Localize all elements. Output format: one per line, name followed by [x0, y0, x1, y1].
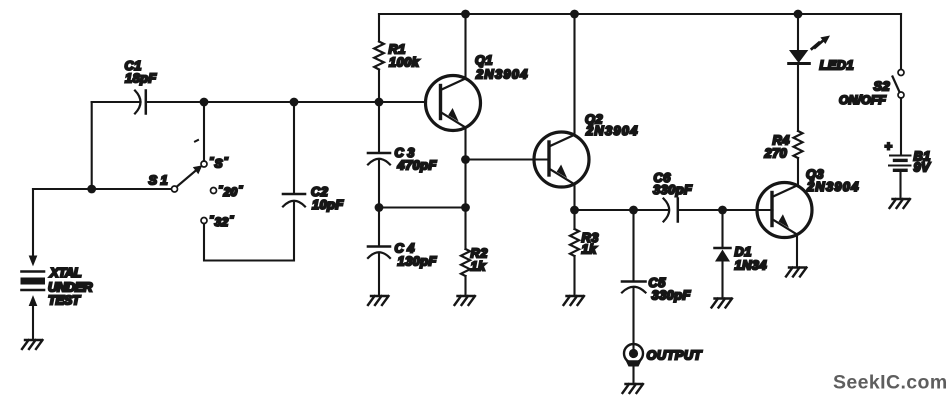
svg-text:ON/OFF: ON/OFF: [839, 93, 886, 107]
node junction R1/C3: [375, 98, 384, 107]
ground (C4): [368, 296, 389, 305]
svg-text:"S": "S": [210, 156, 229, 171]
ground (R3): [564, 296, 585, 305]
arrow up from ground to XTAL: [29, 297, 36, 306]
wire Q1 collector: [464, 14, 466, 79]
capacitor C4: [368, 245, 390, 248]
ground (B1): [890, 199, 911, 208]
node junction R2 top: [461, 203, 470, 212]
wire interstage row y=210: [575, 209, 773, 211]
wire C4 branch: [378, 208, 380, 297]
transistor Q3: [757, 183, 812, 238]
svg-text:SeekIC.com: SeekIC.com: [833, 372, 948, 394]
svg-text:330pF: 330pF: [652, 288, 692, 303]
node junction C1/S: [200, 98, 209, 107]
svg-text:270: 270: [764, 146, 788, 161]
node junction Q2 emitter / output row: [570, 206, 579, 215]
node contact "20": [211, 188, 217, 194]
node junction C5 tap: [629, 206, 638, 215]
wire from S contact up to input line: [203, 102, 205, 161]
ground (Q3): [786, 268, 807, 277]
resistor R3: [570, 229, 579, 256]
capacitor C1: [135, 91, 141, 114]
node junction Q2 collector at rail: [570, 10, 579, 19]
wire S2 branch from rail: [900, 14, 902, 70]
diode D1: [715, 247, 731, 250]
svg-text:"32": "32": [210, 214, 235, 229]
battery B1: [890, 155, 911, 157]
ground (R2): [455, 296, 476, 305]
wire S1 arm: [177, 170, 197, 187]
svg-text:2N3904: 2N3904: [585, 123, 639, 138]
svg-text:2N3904: 2N3904: [475, 67, 529, 82]
wire Q2 collector: [573, 14, 575, 135]
svg-text:470pF: 470pF: [397, 158, 438, 173]
node junction LED at rail: [794, 10, 803, 19]
connector OUTPUT jack: [624, 344, 643, 363]
capacitor C6: [664, 199, 670, 222]
svg-text:1k: 1k: [471, 259, 487, 274]
capacitor C3: [368, 152, 390, 155]
svg-text:S 1: S 1: [149, 173, 169, 188]
stray tick mark: [195, 140, 198, 142]
svg-text:330pF: 330pF: [653, 182, 693, 197]
svg-text:+: +: [885, 139, 893, 154]
svg-text:S2: S2: [874, 79, 891, 94]
svg-text:"20": "20": [219, 184, 244, 199]
node junction C3/C4: [375, 203, 384, 212]
wire S1 common row y=189: [33, 188, 171, 190]
svg-text:LED1: LED1: [820, 58, 855, 73]
capacitor C5: [622, 280, 646, 283]
wire Q2 base: [466, 158, 550, 160]
svg-text:10pF: 10pF: [312, 197, 344, 212]
svg-text:1N34: 1N34: [735, 258, 767, 273]
transistor Q2: [534, 132, 589, 187]
transistor Q1: [426, 76, 481, 131]
wire LED cathode to R4: [797, 64, 799, 187]
wire Q2 emitter down through R3: [573, 184, 575, 296]
wire LED anode: [797, 14, 799, 50]
wire from "32" contact to C2 bottom: [204, 201, 294, 261]
resistor R4: [794, 131, 803, 158]
arrow down to XTAL: [29, 256, 36, 265]
ground (OUTPUT): [623, 384, 644, 393]
crystal XTAL UNDER TEST: [22, 270, 45, 273]
resistor R2: [461, 249, 470, 276]
svg-text:2N3904: 2N3904: [806, 179, 860, 194]
svg-text:1k: 1k: [582, 242, 598, 257]
svg-text:100k: 100k: [389, 55, 420, 70]
svg-text:XTAL: XTAL: [49, 265, 82, 280]
svg-text:9V: 9V: [914, 160, 932, 175]
node contact "S": [201, 161, 207, 167]
wire C3 branch: [378, 102, 380, 208]
LED1 emission arrow: [812, 42, 822, 49]
svg-text:OUTPUT: OUTPUT: [647, 348, 703, 363]
svg-text:Q1: Q1: [475, 53, 493, 68]
LED LED1: [789, 50, 808, 63]
wire battery to ground: [899, 170, 901, 199]
switch S2: [898, 70, 904, 76]
ground (D1): [712, 299, 733, 308]
node junction C1-left: [87, 185, 96, 194]
node S1 pivot contact: [172, 186, 178, 192]
svg-text:18pF: 18pF: [125, 71, 157, 86]
node contact "32": [201, 218, 207, 224]
wire Q1 emitter down to R2: [464, 128, 466, 297]
wire top supply rail: [379, 13, 901, 15]
wire R1 branch vertical: [378, 14, 380, 102]
wire C3/C4 junction row: [379, 206, 466, 208]
svg-text:TEST: TEST: [48, 293, 81, 308]
resistor R1: [374, 42, 384, 70]
wire Q3 emitter: [796, 235, 798, 268]
capacitor C2: [283, 193, 305, 196]
wire down to crystal: [32, 189, 34, 256]
node junction Q1 emitter / Q2 base: [461, 155, 470, 164]
ground (XTAL): [22, 340, 43, 349]
node junction C2 top: [290, 98, 299, 107]
wire D1 branch: [721, 210, 723, 299]
wire main input line y=102: [92, 101, 426, 103]
wire C5 branch: [632, 210, 634, 352]
node junction D1 tap: [718, 206, 727, 215]
node junction Q1 collector at rail: [461, 10, 470, 19]
wire left branch down to S1 row: [91, 102, 93, 189]
wire S2 to battery: [900, 98, 902, 155]
svg-text:130pF: 130pF: [398, 254, 438, 269]
